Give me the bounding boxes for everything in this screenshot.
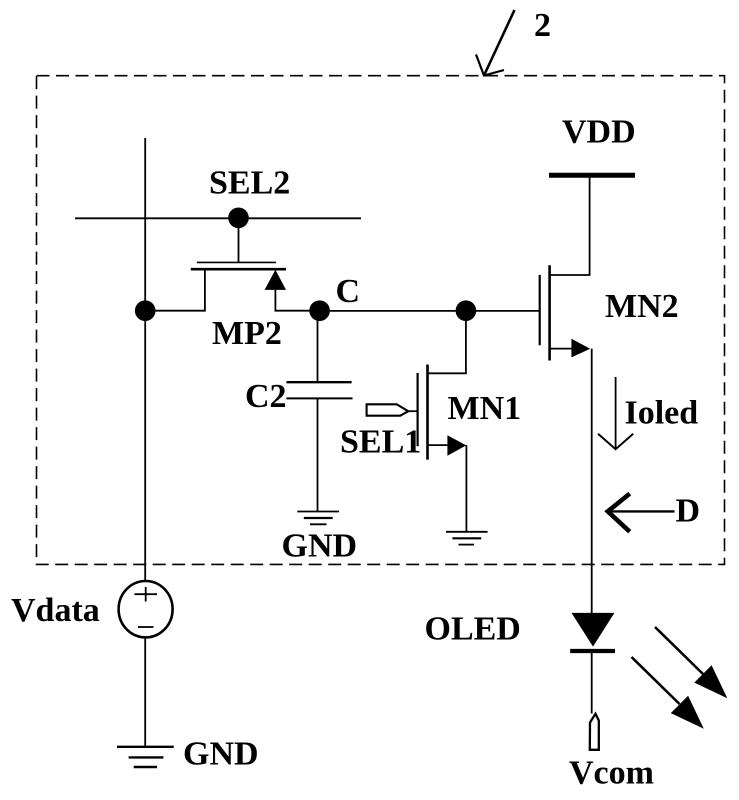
node D arrow: [608, 494, 675, 532]
MN1 drain wire from node: [428, 311, 466, 373]
MN2 source contact wire: [550, 348, 575, 350]
node C dot: [309, 300, 330, 321]
capacitor C2: [286, 311, 352, 511]
svg-text:C2: C2: [245, 378, 287, 415]
pixel circuit boundary (dashed box): [37, 76, 725, 565]
ground under C2: [297, 512, 339, 525]
svg-text:C: C: [336, 273, 361, 310]
ground under MN1: [446, 532, 488, 545]
SEL1 lead to gate: [408, 410, 418, 412]
OLED cathode bar: [570, 649, 615, 653]
wire MP2 gate lead from SEL2 dot: [238, 218, 240, 262]
OLED anode triangle: [572, 613, 615, 647]
svg-text:OLED: OLED: [425, 611, 521, 648]
MN2 gate bar: [539, 275, 541, 345]
C2 top lead: [317, 311, 319, 381]
wire SEL2 row line: [75, 217, 361, 219]
reference arrow to label 2: [476, 10, 515, 76]
ground under Vdata: [117, 747, 174, 767]
svg-text:Ioled: Ioled: [625, 395, 699, 432]
plus sign: [135, 593, 158, 595]
light emission arrow 2: [632, 657, 704, 729]
OLED cathode wire: [591, 653, 593, 714]
wire Vdata source to ground: [144, 637, 146, 746]
MP2 gate bar: [197, 261, 276, 263]
svg-text:2: 2: [534, 7, 551, 44]
current arrow Ioled: [598, 377, 633, 449]
wire MN2 source to OLED anode: [591, 349, 593, 614]
svg-text:MP2: MP2: [212, 315, 282, 352]
svg-text:MN2: MN2: [605, 288, 679, 325]
transistor MP2: [145, 262, 320, 310]
wire Vdata column vertical: [144, 138, 146, 581]
MP2 drain wire: [275, 289, 320, 311]
SEL1 input terminal symbol: [367, 404, 418, 415]
MP2 source contact wire: [145, 270, 205, 311]
MN1 gate bar: [417, 373, 419, 446]
transistor MN1: [418, 311, 467, 532]
svg-text:Vdata: Vdata: [11, 592, 100, 629]
node dot above MN1: [456, 300, 477, 321]
node junction dot on SEL2 line: [228, 208, 249, 229]
C2 top plate: [286, 381, 351, 383]
node dot on Vdata line: [135, 300, 156, 321]
svg-text:D: D: [676, 493, 701, 530]
svg-text:GND: GND: [282, 528, 358, 565]
MP2 drain arrow (points into channel): [265, 270, 286, 290]
power VDD bar: [549, 173, 635, 178]
C2 bottom lead: [317, 398, 319, 511]
terminal Vcom pin: [590, 714, 599, 750]
svg-text:MN1: MN1: [448, 390, 522, 427]
voltage source Vdata: [119, 581, 173, 637]
MN1 source down wire: [465, 445, 467, 531]
svg-text:VDD: VDD: [562, 114, 636, 151]
MP2 channel bar: [191, 268, 286, 271]
wire node C row (C to MN2 gate): [320, 310, 540, 312]
svg-text:SEL2: SEL2: [209, 165, 290, 202]
svg-text:SEL1: SEL1: [340, 424, 421, 461]
MN2 channel bar: [548, 265, 551, 360]
light emission arrow 1: [655, 627, 727, 698]
MN1 source contact wire: [428, 444, 453, 446]
minus sign: [138, 626, 154, 628]
svg-text:GND: GND: [183, 736, 259, 773]
diode OLED: [570, 613, 615, 714]
transistor MN2: [540, 176, 591, 361]
MN2 drain wire from VDD: [550, 176, 590, 275]
MN1 source arrow: [447, 435, 466, 456]
MN1 channel bar: [426, 365, 429, 460]
C2 bottom plate: [286, 397, 352, 399]
svg-text:Vcom: Vcom: [569, 755, 654, 792]
MN2 source arrow: [571, 339, 590, 358]
